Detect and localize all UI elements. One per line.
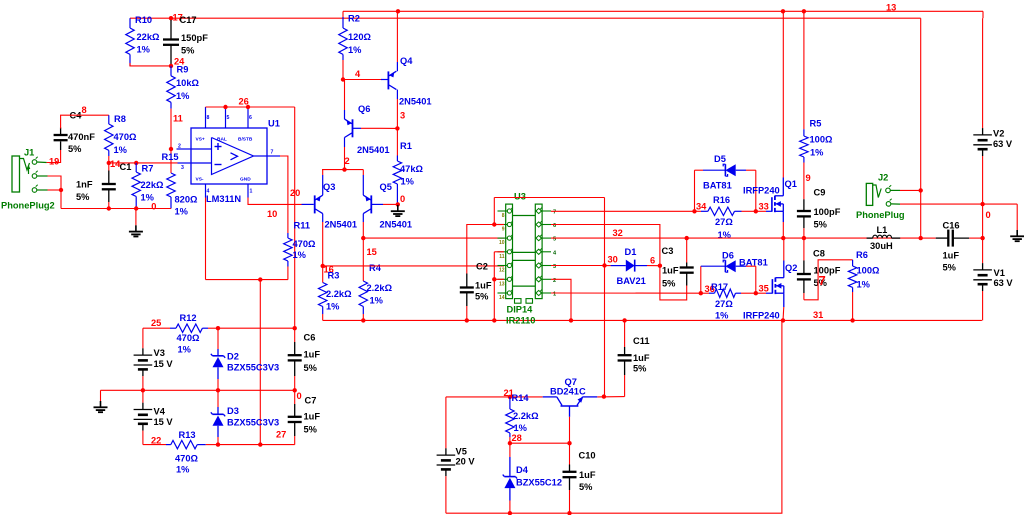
svg-text:150pF: 150pF bbox=[181, 33, 208, 43]
wire Q5 emitter bbox=[362, 170, 364, 196]
connector J1 PhonePlug2 bbox=[1, 148, 55, 211]
svg-text:27Ω: 27Ω bbox=[715, 217, 733, 227]
wire J1 tip to C4 bbox=[47, 150, 61, 163]
svg-text:470Ω: 470Ω bbox=[293, 239, 317, 249]
svg-text:R1: R1 bbox=[400, 141, 412, 151]
resistor R13 bbox=[143, 430, 218, 475]
svg-text:1: 1 bbox=[250, 189, 253, 195]
svg-text:R13: R13 bbox=[179, 430, 196, 440]
wire Q6 base to node 3 bbox=[353, 127, 398, 129]
zener D3 BZX55C3V3 bbox=[211, 390, 279, 444]
svg-text:BZX55C12: BZX55C12 bbox=[516, 477, 562, 487]
svg-text:C8: C8 bbox=[813, 248, 825, 258]
svg-text:5%: 5% bbox=[181, 46, 195, 56]
svg-text:V4: V4 bbox=[154, 407, 166, 417]
wire VDD net top bbox=[494, 197, 604, 199]
svg-text:470Ω: 470Ω bbox=[177, 333, 201, 343]
battery V5 20V bbox=[437, 397, 476, 513]
svg-text:0: 0 bbox=[151, 202, 156, 212]
svg-text:2: 2 bbox=[345, 156, 350, 166]
node 17 junction bbox=[169, 13, 183, 23]
svg-text:1%: 1% bbox=[370, 296, 384, 306]
wire Q6 collector to node 2 bbox=[344, 138, 346, 170]
resistor R11 bbox=[284, 221, 316, 267]
svg-text:13: 13 bbox=[886, 3, 896, 13]
svg-text:R6: R6 bbox=[856, 250, 868, 260]
node 14 label bbox=[110, 159, 121, 169]
battery V1 63V bbox=[973, 204, 1013, 320]
svg-text:V3: V3 bbox=[154, 348, 165, 358]
wire C8 to R6 top bbox=[804, 260, 853, 300]
wire node 35 to Q2 gate bbox=[756, 292, 773, 294]
svg-text:VS-: VS- bbox=[196, 177, 204, 183]
wire Q1 drain to rail bbox=[782, 11, 784, 196]
svg-text:PhonePlug: PhonePlug bbox=[856, 210, 905, 220]
wire bottom bus bbox=[446, 320, 782, 515]
wire mid 0 net bbox=[101, 388, 297, 392]
node 32 label bbox=[613, 228, 623, 238]
transistor Q6 2N5401 bbox=[345, 104, 390, 155]
wire Q3 collector to node 16 bbox=[322, 214, 324, 266]
svg-text:R3: R3 bbox=[328, 271, 340, 281]
svg-text:V2: V2 bbox=[993, 129, 1004, 139]
node 8 label bbox=[82, 105, 87, 115]
svg-text:1%: 1% bbox=[114, 145, 128, 155]
svg-text:5%: 5% bbox=[304, 425, 318, 435]
svg-text:R16: R16 bbox=[713, 195, 730, 205]
node 22 label bbox=[151, 436, 161, 446]
svg-text:5%: 5% bbox=[76, 192, 90, 202]
svg-text:820Ω: 820Ω bbox=[175, 195, 199, 205]
wire R11 bottom to VS- net bbox=[206, 267, 288, 282]
svg-text:5%: 5% bbox=[579, 482, 593, 492]
svg-text:470Ω: 470Ω bbox=[114, 132, 138, 142]
node 20 label bbox=[290, 188, 300, 198]
wire node 14 horizontal bbox=[107, 161, 178, 165]
node 19 label bbox=[49, 157, 59, 167]
zener D4 BZX55C12 bbox=[503, 443, 562, 513]
node 7 label bbox=[819, 273, 826, 288]
node 25 label bbox=[151, 318, 161, 328]
svg-text:1uF: 1uF bbox=[475, 281, 492, 291]
svg-text:10: 10 bbox=[499, 240, 505, 246]
svg-text:1%: 1% bbox=[137, 45, 151, 55]
svg-text:D4: D4 bbox=[516, 465, 529, 475]
svg-text:C11: C11 bbox=[633, 336, 650, 346]
svg-text:BAT81: BAT81 bbox=[703, 181, 732, 191]
svg-text:1: 1 bbox=[553, 292, 556, 298]
resistor R9 bbox=[167, 65, 200, 109]
zener D2 BZX55C3V3 bbox=[211, 328, 279, 390]
wire node 2 emitters bbox=[322, 167, 363, 171]
svg-text:D3: D3 bbox=[227, 406, 239, 416]
svg-text:5%: 5% bbox=[943, 263, 957, 273]
svg-text:2: 2 bbox=[553, 278, 556, 284]
wire U3 pin5 VS node 32 bbox=[551, 236, 921, 240]
capacitor C7 bbox=[288, 390, 321, 444]
svg-text:2.2kΩ: 2.2kΩ bbox=[513, 411, 539, 421]
wire node 28 to Q7 base and C10 bbox=[508, 417, 572, 446]
diode D1 BAV21 bbox=[605, 247, 660, 286]
wire U3 pin7 HO to node 34 bbox=[551, 210, 695, 212]
svg-text:1nF: 1nF bbox=[76, 180, 93, 190]
svg-text:7: 7 bbox=[271, 150, 274, 156]
svg-text:R11: R11 bbox=[294, 221, 311, 231]
svg-text:15 V: 15 V bbox=[154, 417, 174, 427]
op-amp U1 LM311N bbox=[177, 107, 280, 204]
wire node 27 line bbox=[216, 442, 295, 446]
svg-text:1%: 1% bbox=[176, 91, 190, 101]
capacitor C16 bbox=[921, 221, 985, 273]
wire node 15 to U3 pin10 bbox=[363, 237, 504, 239]
wire U1 pin7 output node 20 bbox=[267, 156, 288, 233]
svg-text:11: 11 bbox=[173, 114, 183, 124]
wire VDD vertical bbox=[602, 198, 606, 397]
wire Q1 source to node 32 bbox=[782, 211, 784, 238]
svg-text:63 V: 63 V bbox=[993, 139, 1013, 149]
resistor R15 bbox=[162, 152, 199, 217]
node 16 bbox=[321, 264, 334, 275]
transistor Q5 2N5401 bbox=[363, 182, 412, 230]
wire feedback net node 17 horizontal bbox=[130, 17, 921, 19]
svg-text:1%: 1% bbox=[514, 423, 528, 433]
svg-text:11: 11 bbox=[499, 254, 505, 260]
wire Q7 emitter to C11 bbox=[597, 394, 624, 398]
svg-text:J2: J2 bbox=[878, 173, 888, 183]
svg-text:25: 25 bbox=[151, 318, 161, 328]
wire Q3 emitter bbox=[321, 170, 324, 196]
svg-text:8: 8 bbox=[82, 105, 87, 115]
svg-text:1uF: 1uF bbox=[943, 251, 960, 261]
node 24 bbox=[169, 57, 185, 69]
transistor Q7 BD241C bbox=[543, 377, 598, 417]
node 6 bbox=[650, 256, 662, 268]
svg-text:5%: 5% bbox=[68, 144, 82, 154]
svg-text:12: 12 bbox=[499, 268, 505, 274]
wire regulator top bbox=[446, 395, 543, 399]
resistor R8 bbox=[105, 114, 137, 156]
svg-text:0: 0 bbox=[297, 391, 302, 401]
svg-text:14: 14 bbox=[499, 295, 505, 301]
wire VSS rail bbox=[323, 318, 982, 322]
node 0 at Q5 bbox=[396, 194, 406, 207]
svg-text:GND: GND bbox=[240, 177, 251, 183]
svg-text:2N5401: 2N5401 bbox=[380, 220, 413, 230]
svg-text:6: 6 bbox=[553, 223, 556, 229]
svg-text:2N5401: 2N5401 bbox=[399, 97, 432, 107]
wire U1 pin1 to Q3 base node 10 bbox=[248, 198, 314, 205]
capacitor C3 bbox=[662, 238, 694, 289]
svg-text:D2: D2 bbox=[227, 352, 239, 362]
wire +63V rail node 13 bbox=[343, 9, 983, 13]
svg-text:100Ω: 100Ω bbox=[857, 266, 881, 276]
wire node 16 to U3 pin12 bbox=[323, 265, 504, 267]
wire VS- vertical to node 27 bbox=[259, 280, 261, 445]
svg-text:22: 22 bbox=[151, 436, 161, 446]
svg-text:R12: R12 bbox=[180, 313, 197, 323]
svg-text:8: 8 bbox=[207, 115, 210, 121]
svg-text:R15: R15 bbox=[162, 152, 179, 162]
node 13 label bbox=[886, 3, 896, 13]
svg-text:2N5401: 2N5401 bbox=[325, 220, 358, 230]
svg-text:100Ω: 100Ω bbox=[810, 135, 834, 145]
svg-text:C9: C9 bbox=[814, 188, 826, 198]
svg-text:BAV21: BAV21 bbox=[617, 276, 646, 286]
battery V4 15V bbox=[134, 390, 174, 444]
inductor L1 bbox=[867, 225, 901, 251]
wire J1 sleeve ring bbox=[48, 176, 64, 209]
svg-text:IRFP240: IRFP240 bbox=[743, 186, 780, 196]
resistor R3 bbox=[319, 266, 353, 321]
svg-text:7: 7 bbox=[553, 210, 556, 216]
diode D6 BAT81 bbox=[701, 251, 768, 294]
svg-text:2N5401: 2N5401 bbox=[357, 145, 390, 155]
svg-text:PhonePlug2: PhonePlug2 bbox=[1, 201, 55, 211]
svg-text:3: 3 bbox=[553, 264, 556, 270]
svg-text:IR2110: IR2110 bbox=[506, 316, 535, 326]
svg-text:1%: 1% bbox=[326, 302, 340, 312]
svg-text:20 V: 20 V bbox=[456, 457, 476, 467]
svg-text:3: 3 bbox=[181, 165, 184, 171]
svg-text:R17: R17 bbox=[711, 282, 728, 292]
svg-text:47kΩ: 47kΩ bbox=[400, 164, 424, 174]
svg-text:Q7: Q7 bbox=[565, 377, 577, 387]
svg-text:31: 31 bbox=[813, 310, 823, 320]
wire U3 pin11 to pin13 to VSS bbox=[492, 252, 504, 321]
wire U1 pin4 VS- bbox=[205, 198, 207, 280]
IC U3 IR2110 DIP14 bbox=[498, 192, 558, 326]
svg-text:30uH: 30uH bbox=[870, 241, 893, 251]
node 2 label bbox=[345, 156, 350, 166]
svg-text:C17: C17 bbox=[180, 15, 197, 25]
svg-text:9: 9 bbox=[806, 173, 811, 183]
wire VS+ bus bbox=[216, 326, 297, 330]
svg-text:C10: C10 bbox=[579, 451, 596, 461]
svg-text:D1: D1 bbox=[625, 247, 637, 257]
capacitor C4 bbox=[54, 111, 96, 155]
capacitor C17 bbox=[163, 15, 208, 64]
svg-text:LM311N: LM311N bbox=[206, 194, 241, 204]
transistor Q3 2N5401 bbox=[315, 182, 357, 230]
svg-text:1%: 1% bbox=[810, 148, 824, 158]
svg-text:BAL: BAL bbox=[217, 137, 227, 143]
svg-text:470nF: 470nF bbox=[68, 132, 95, 142]
svg-text:1%: 1% bbox=[715, 311, 729, 321]
wire Q6 emitter to node 4 bbox=[344, 80, 346, 120]
svg-text:7: 7 bbox=[819, 273, 826, 288]
wire U3 pin1 LO bbox=[551, 292, 701, 294]
wire VDD to pin 9 bbox=[467, 198, 504, 241]
resistor R6 bbox=[848, 250, 880, 320]
svg-text:5%: 5% bbox=[475, 292, 489, 302]
capacitor C2 bbox=[460, 240, 492, 320]
ground left bbox=[94, 390, 108, 412]
node 33 bbox=[754, 202, 769, 214]
wire Q5 collector to node 15 bbox=[362, 214, 364, 239]
wire node 6 to C3 bottom bbox=[660, 266, 687, 300]
svg-text:1uF: 1uF bbox=[304, 350, 321, 360]
resistor R17 bbox=[701, 282, 756, 321]
svg-text:28: 28 bbox=[512, 433, 522, 443]
svg-text:6: 6 bbox=[650, 256, 655, 266]
capacitor C10 bbox=[563, 443, 596, 513]
battery V2 63V bbox=[973, 11, 1013, 204]
wire R10 bottom to node 24 bbox=[130, 63, 171, 66]
node 3 bbox=[395, 111, 405, 131]
svg-text:22kΩ: 22kΩ bbox=[141, 180, 165, 190]
svg-text:BZX55C3V3: BZX55C3V3 bbox=[227, 363, 279, 373]
wire U3 pin2 COM bbox=[551, 279, 571, 320]
resistor R2 bbox=[339, 11, 372, 79]
node 11 label bbox=[173, 114, 183, 124]
svg-text:35: 35 bbox=[759, 284, 769, 294]
node 34 bbox=[692, 202, 707, 214]
svg-text:1%: 1% bbox=[178, 345, 192, 355]
node 30 label bbox=[608, 255, 618, 265]
svg-text:U1: U1 bbox=[268, 119, 280, 129]
svg-text:C1: C1 bbox=[120, 162, 132, 172]
node 28 label bbox=[512, 433, 522, 443]
svg-text:34: 34 bbox=[696, 202, 707, 212]
node 0 label input bbox=[151, 202, 156, 212]
svg-text:R7: R7 bbox=[142, 164, 154, 174]
node 21 label bbox=[504, 388, 514, 398]
resistor R16 bbox=[695, 195, 756, 240]
node 4 label bbox=[355, 69, 361, 79]
svg-text:R2: R2 bbox=[348, 14, 360, 24]
wire ground net 0 under input bbox=[61, 206, 171, 210]
svg-text:5%: 5% bbox=[633, 364, 647, 374]
svg-text:15: 15 bbox=[367, 247, 377, 257]
svg-text:B/STB: B/STB bbox=[238, 137, 253, 143]
wire node 33 to Q1 gate bbox=[756, 210, 772, 212]
svg-text:V5: V5 bbox=[456, 447, 467, 457]
node 15 bbox=[361, 236, 377, 257]
svg-text:2: 2 bbox=[178, 144, 181, 150]
svg-text:C7: C7 bbox=[305, 396, 317, 406]
svg-text:1uF: 1uF bbox=[579, 470, 596, 480]
svg-text:5: 5 bbox=[553, 237, 556, 243]
svg-text:Q6: Q6 bbox=[358, 104, 370, 114]
svg-text:32: 32 bbox=[613, 228, 623, 238]
svg-text:5%: 5% bbox=[304, 363, 318, 373]
svg-text:C16: C16 bbox=[943, 221, 960, 231]
svg-text:D6: D6 bbox=[722, 251, 734, 261]
svg-text:5%: 5% bbox=[814, 220, 828, 230]
svg-text:1%: 1% bbox=[857, 280, 871, 290]
svg-text:1uF: 1uF bbox=[304, 412, 321, 422]
resistor R14 bbox=[506, 393, 539, 443]
node 35 bbox=[754, 284, 769, 296]
svg-text:27: 27 bbox=[276, 430, 286, 440]
svg-text:R5: R5 bbox=[810, 119, 822, 129]
node 9 label bbox=[806, 173, 811, 183]
wire Q2 drain to node 32 bbox=[783, 238, 785, 278]
wire Q4 collector to node 3 bbox=[396, 90, 398, 129]
node 4 wire to Q4 base bbox=[341, 77, 389, 81]
svg-text:VS+: VS+ bbox=[196, 137, 205, 143]
wire Q2 source to VSS rail bbox=[782, 293, 785, 320]
ground input bbox=[129, 209, 143, 237]
wire node 26 vertical to VS+ rail bbox=[294, 107, 296, 328]
svg-text:C3: C3 bbox=[662, 246, 674, 256]
svg-text:R14: R14 bbox=[512, 393, 530, 403]
svg-text:33: 33 bbox=[759, 202, 769, 212]
diode D5 BAT81 bbox=[695, 154, 756, 211]
svg-text:BZX55C3V3: BZX55C3V3 bbox=[227, 418, 279, 428]
svg-text:1%: 1% bbox=[176, 465, 190, 475]
connector J2 PhonePlug bbox=[856, 173, 905, 221]
transistor Q1 IRFP240 bbox=[743, 179, 797, 212]
svg-text:4: 4 bbox=[355, 69, 361, 79]
svg-text:26: 26 bbox=[239, 97, 249, 107]
svg-text:Q1: Q1 bbox=[785, 179, 797, 189]
svg-text:63 V: 63 V bbox=[994, 278, 1014, 288]
ground top right bbox=[1010, 204, 1024, 241]
capacitor C1 bbox=[76, 162, 131, 209]
resistor R4 bbox=[359, 238, 392, 320]
transistor Q4 2N5401 bbox=[388, 56, 431, 107]
wire Q4 emitter to rail bbox=[396, 11, 398, 71]
ground at Q5 bbox=[391, 205, 405, 216]
svg-text:V1: V1 bbox=[994, 268, 1005, 278]
svg-text:L1: L1 bbox=[877, 225, 888, 235]
svg-text:1uF: 1uF bbox=[662, 266, 679, 276]
wire node 11 R9 to U1 pin2 bbox=[169, 109, 173, 163]
svg-text:22kΩ: 22kΩ bbox=[137, 32, 161, 42]
wire feedback vertical to output node bbox=[919, 18, 923, 240]
svg-text:13: 13 bbox=[499, 281, 505, 287]
svg-text:Q4: Q4 bbox=[400, 56, 413, 66]
svg-text:BD241C: BD241C bbox=[550, 387, 586, 397]
svg-text:J1: J1 bbox=[24, 148, 34, 158]
resistor R12 bbox=[143, 313, 218, 355]
wire J2 sleeve to 0 net bbox=[900, 202, 1017, 206]
svg-text:10: 10 bbox=[267, 209, 277, 219]
wire U1 supply node 26 bbox=[206, 105, 295, 109]
capacitor C9 bbox=[797, 163, 841, 239]
capacitor C8 bbox=[797, 238, 841, 300]
svg-text:0: 0 bbox=[986, 210, 991, 220]
svg-text:R9: R9 bbox=[177, 65, 189, 75]
svg-text:C6: C6 bbox=[304, 333, 316, 343]
wire U3 pin6 VB bbox=[551, 225, 660, 266]
svg-text:C2: C2 bbox=[476, 261, 488, 271]
wire U3 pin3 VCC bbox=[551, 265, 605, 267]
svg-text:D5: D5 bbox=[714, 154, 726, 164]
battery V3 15V bbox=[134, 348, 174, 390]
resistor R10 bbox=[126, 15, 160, 66]
wire node 8 C4 to R8 bbox=[61, 115, 109, 128]
svg-text:1%: 1% bbox=[293, 250, 307, 260]
svg-text:R8: R8 bbox=[114, 114, 126, 124]
svg-text:19: 19 bbox=[49, 157, 59, 167]
svg-text:120Ω: 120Ω bbox=[348, 32, 372, 42]
node 0 right label bbox=[986, 210, 991, 220]
svg-text:6: 6 bbox=[249, 115, 252, 121]
node 27 label bbox=[276, 430, 286, 440]
svg-text:Q2: Q2 bbox=[785, 263, 797, 273]
svg-text:BAT81: BAT81 bbox=[739, 258, 768, 268]
svg-text:Q5: Q5 bbox=[380, 182, 392, 192]
svg-text:R10: R10 bbox=[135, 15, 152, 25]
svg-text:9: 9 bbox=[502, 227, 505, 233]
svg-text:1%: 1% bbox=[175, 207, 189, 217]
svg-text:2.2kΩ: 2.2kΩ bbox=[367, 283, 393, 293]
svg-text:8: 8 bbox=[502, 213, 505, 219]
svg-text:5: 5 bbox=[227, 115, 230, 121]
svg-text:1uF: 1uF bbox=[633, 353, 650, 363]
